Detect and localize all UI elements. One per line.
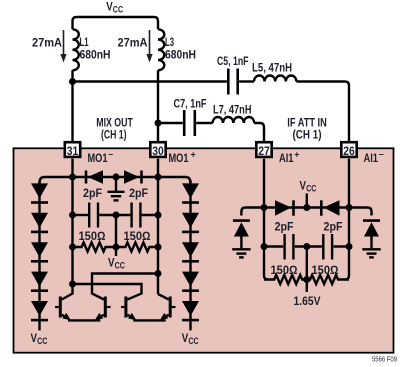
- esd diode left (pointing up): [233, 221, 250, 249]
- node dots left section: [69, 174, 76, 181]
- wire VCC top rail: [73, 17, 159, 29]
- wire resistor row y=279.5: [264, 275, 349, 284]
- diode D7: [182, 213, 199, 228]
- wire left diode chain: [38, 181, 40, 330]
- pin 31: [65, 142, 80, 158]
- svg-text:680nH: 680nH: [165, 48, 196, 62]
- wire 1.65V stub: [306, 280, 308, 293]
- diode row right diode: [124, 170, 139, 183]
- diode D1: [31, 183, 48, 198]
- capacitor C7: [183, 110, 186, 136]
- diode ai left (pointing right): [275, 200, 340, 215]
- node at left rail: [69, 78, 76, 85]
- pin 27: [256, 142, 271, 158]
- svg-text:CC: CC: [113, 5, 123, 16]
- svg-text:C5, 1nF: C5, 1nF: [217, 54, 249, 68]
- diode chain right (5 diodes): [182, 183, 199, 321]
- svg-text:CC: CC: [115, 261, 125, 272]
- pin 30: [150, 142, 165, 158]
- wire main horizontal y=81.5 with C5 gap: [73, 80, 227, 82]
- wire L5 to pin 26: [296, 82, 349, 142]
- wire left rail to pin 31: [71, 70, 73, 141]
- wire cap row y=246.5: [264, 245, 283, 247]
- svg-text:2pF: 2pF: [275, 220, 294, 234]
- inductor L3: [158, 29, 164, 70]
- svg-text:150Ω: 150Ω: [312, 263, 339, 277]
- diode chain left (5 diodes): [31, 183, 48, 321]
- svg-text:+: +: [191, 149, 196, 159]
- svg-text:1.65V: 1.65V: [294, 294, 321, 308]
- svg-text:2pF: 2pF: [83, 186, 102, 200]
- svg-text:(CH 1): (CH 1): [293, 128, 322, 142]
- transistor Q3 (right pair left): [121, 297, 136, 321]
- esd diode right (pointing up): [363, 221, 380, 249]
- svg-text:2pF: 2pF: [129, 186, 148, 200]
- diode D3: [31, 242, 48, 257]
- diode D5: [31, 301, 48, 316]
- svg-text:26: 26: [343, 144, 355, 158]
- ground center: [115, 177, 117, 191]
- diode D10: [182, 301, 199, 316]
- 27mA arrow left: [60, 30, 66, 63]
- inductor L7: [213, 117, 255, 123]
- svg-text:CC: CC: [37, 336, 47, 347]
- wire resistor row y=247: [73, 243, 159, 252]
- svg-text:CC: CC: [188, 336, 198, 347]
- emitter wire right pair: [133, 319, 165, 321]
- svg-text:150Ω: 150Ω: [79, 229, 106, 243]
- svg-text:27mA: 27mA: [32, 36, 62, 50]
- diode D8: [182, 242, 199, 257]
- svg-text:31: 31: [67, 144, 79, 158]
- wire pin27 rail down: [264, 159, 268, 280]
- svg-text:150Ω: 150Ω: [124, 229, 151, 243]
- svg-text:–: –: [379, 149, 384, 159]
- capacitor 2pF left: [88, 203, 90, 228]
- capacitor 2pF ai right: [322, 234, 324, 260]
- svg-text:2pF: 2pF: [324, 220, 343, 234]
- wire C7 row: [158, 122, 183, 124]
- svg-text:+: +: [294, 149, 299, 159]
- diode D2: [31, 213, 48, 228]
- diode D4: [31, 272, 48, 287]
- svg-text:C7, 1nF: C7, 1nF: [174, 97, 207, 111]
- wire diode row y=207.5: [241, 208, 371, 216]
- transistor Q4 collector: [158, 294, 169, 300]
- svg-text:(CH 1): (CH 1): [101, 128, 127, 142]
- svg-text:680nH: 680nH: [80, 48, 111, 62]
- diode row left diode: [86, 170, 142, 183]
- diode D6: [182, 183, 199, 198]
- svg-text:AI1: AI1: [364, 151, 379, 165]
- ground left ai: [232, 249, 250, 257]
- capacitor C5: [227, 69, 230, 95]
- svg-text:CC: CC: [306, 184, 316, 195]
- svg-text:–: –: [108, 149, 113, 159]
- emitter wire left pair: [68, 319, 100, 321]
- svg-text:MO1: MO1: [88, 151, 108, 165]
- svg-text:AI1: AI1: [279, 151, 294, 165]
- inductor L1: [73, 29, 79, 70]
- node dots right section: [261, 204, 268, 211]
- svg-text:30: 30: [152, 144, 164, 158]
- ground right ai: [362, 249, 380, 257]
- node C7 tap: [155, 120, 162, 127]
- svg-text:L5, 47nH: L5, 47nH: [252, 61, 292, 75]
- capacitor 2pF ai left: [283, 234, 285, 260]
- wire center vertical ai: [306, 247, 308, 280]
- inductor L5: [254, 75, 296, 81]
- wire cap row y=215: [73, 214, 89, 216]
- transistor Q2 (left pair right): [95, 297, 111, 321]
- 27mA arrow right: [146, 30, 152, 63]
- wire VCC stem: [306, 194, 308, 208]
- IC body (pink): [14, 148, 394, 352]
- transistor Q1 collector: [62, 284, 73, 300]
- diode D9: [182, 272, 199, 287]
- svg-text:MO1: MO1: [169, 151, 189, 165]
- wire L7 to pin 27: [254, 123, 264, 141]
- wire right rail to pin 30: [157, 70, 159, 141]
- transistor Q4 (right pair right): [160, 297, 176, 321]
- wire pin26 rail down: [345, 159, 349, 280]
- wire center vertical: [115, 215, 117, 247]
- transistor Q1 (left pair left): [55, 297, 71, 321]
- wire pin30 rail down: [157, 159, 159, 294]
- wire pin31 rail down: [71, 159, 73, 284]
- wire cross from pin31: [73, 284, 142, 300]
- pin 26: [341, 142, 356, 158]
- wire diode row y=177: [40, 177, 191, 183]
- wire VCC stub: [115, 247, 117, 256]
- wire cross from pin30: [92, 274, 158, 300]
- svg-text:27: 27: [258, 144, 270, 158]
- svg-text:L7, 47nH: L7, 47nH: [213, 103, 252, 117]
- svg-text:150Ω: 150Ω: [271, 263, 298, 277]
- capacitor 2pF right: [130, 203, 132, 228]
- svg-text:5566 F09: 5566 F09: [372, 355, 397, 364]
- wire right diode chain: [189, 181, 191, 330]
- diode ai right (pointing left): [320, 200, 323, 215]
- svg-text:27mA: 27mA: [118, 36, 148, 50]
